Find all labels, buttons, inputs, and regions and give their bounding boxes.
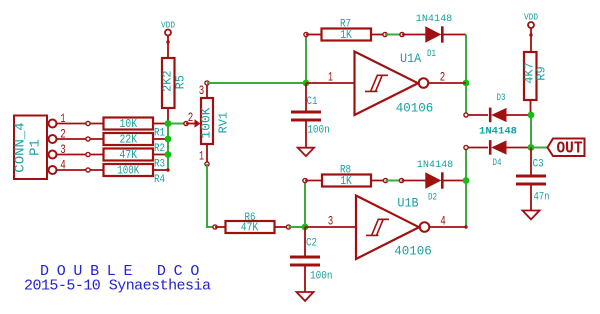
- connector P1 labels: [13, 122, 44, 172]
- svg-text:1: 1: [328, 69, 333, 84]
- svg-text:47K: 47K: [241, 222, 259, 235]
- resistor R1: [104, 118, 169, 140]
- svg-text:2: 2: [188, 110, 194, 125]
- svg-text:U1B: U1B: [397, 197, 419, 211]
- connector pin wires: [57, 124, 104, 171]
- hysteresis glyph U1A: [365, 75, 388, 91]
- U1A pin numbers: [328, 69, 445, 84]
- svg-text:OUT: OUT: [557, 138, 583, 157]
- potentiometer RV1: [184, 81, 231, 166]
- inverter U1A (schmitt): [306, 52, 466, 116]
- svg-text:D1: D1: [427, 49, 436, 60]
- pin-end dot at R4 bus corner: [166, 168, 169, 171]
- connector pin numbers: [60, 111, 66, 173]
- VDD symbol left: [161, 20, 175, 59]
- U1B pin numbers: [328, 214, 446, 229]
- junction D2 node: [463, 177, 470, 184]
- junction D3 node: [528, 112, 535, 119]
- svg-text:R9: R9: [535, 66, 549, 80]
- svg-text:RV1: RV1: [217, 112, 231, 134]
- capacitor C3: [516, 148, 550, 211]
- wire R8 to D2: [386, 180, 402, 182]
- global label OUT: [548, 138, 585, 157]
- svg-text:R3: R3: [154, 159, 165, 171]
- junction node U1A input: [303, 80, 310, 87]
- svg-text:D3: D3: [497, 93, 506, 104]
- svg-text:100K: 100K: [117, 165, 139, 178]
- wire RV1.1 down to R6: [207, 164, 215, 227]
- resistor R2: [104, 133, 169, 155]
- ground below C1: [298, 148, 314, 156]
- ground below C3: [523, 211, 540, 220]
- svg-text:D2: D2: [428, 193, 437, 204]
- RV1 pin numbers: [188, 83, 205, 164]
- wire R9 bottom vertical: [530, 115, 532, 148]
- svg-text:22K: 22K: [120, 134, 138, 147]
- svg-text:R4: R4: [154, 174, 165, 186]
- junction node U1B input: [302, 224, 309, 231]
- ground below C2: [297, 292, 314, 301]
- junction U1A output: [463, 80, 470, 87]
- svg-text:100n: 100n: [310, 271, 333, 283]
- svg-text:47K: 47K: [120, 149, 138, 162]
- svg-text:47n: 47n: [534, 191, 550, 203]
- capacitor C2: [290, 227, 333, 292]
- VDD symbol right: [524, 12, 538, 53]
- svg-text:U1A: U1A: [400, 52, 422, 66]
- wire R7 left vertical: [305, 35, 307, 84]
- svg-text:1K: 1K: [340, 29, 352, 42]
- svg-text:1N4148: 1N4148: [479, 125, 517, 137]
- diode D3: [464, 93, 531, 122]
- wire R6 to U1B node: [289, 226, 306, 228]
- svg-text:40106: 40106: [396, 100, 434, 115]
- svg-text:C2: C2: [306, 238, 317, 250]
- pin-end dots rows 1-4: [86, 121, 90, 172]
- svg-text:R2: R2: [154, 143, 165, 155]
- capacitor C1: [291, 83, 330, 148]
- svg-text:40106: 40106: [394, 244, 432, 259]
- svg-text:VDD: VDD: [524, 12, 538, 23]
- diode D2: [399, 160, 466, 204]
- svg-text:10K: 10K: [120, 118, 138, 131]
- inverter U1B (schmitt): [305, 196, 468, 260]
- svg-text:2K2: 2K2: [160, 70, 174, 92]
- svg-text:R1: R1: [154, 128, 165, 140]
- svg-text:P1: P1: [28, 139, 44, 156]
- svg-text:2015-5-10 Synaesthesia: 2015-5-10 Synaesthesia: [24, 278, 211, 295]
- svg-text:1K: 1K: [340, 175, 352, 188]
- svg-text:3: 3: [328, 214, 334, 229]
- resistor R8: [303, 165, 388, 189]
- resistor R7: [304, 19, 387, 43]
- wire U1B output vertical: [465, 148, 467, 228]
- svg-text:C1: C1: [307, 96, 318, 108]
- resistor R9: [522, 52, 548, 115]
- connector P1 body: [14, 116, 57, 180]
- junction dots left bus: [165, 120, 172, 158]
- svg-text:C3: C3: [533, 159, 544, 171]
- resistor R3: [104, 149, 169, 171]
- diode D4: [464, 140, 531, 169]
- junction D4/OUT node: [528, 144, 535, 151]
- svg-text:4: 4: [440, 214, 446, 229]
- svg-text:1N4148: 1N4148: [417, 160, 454, 171]
- wire node up to R8: [304, 181, 306, 228]
- svg-text:100K: 100K: [199, 107, 214, 138]
- diode D1: [400, 14, 466, 60]
- svg-text:2: 2: [440, 69, 446, 84]
- wire bus vertical R1-R4: [168, 124, 186, 171]
- wire U1A output vertical: [465, 35, 467, 116]
- wire RV1.3 to U1A input: [207, 82, 306, 84]
- svg-text:D4: D4: [493, 158, 502, 169]
- resistor R6: [213, 212, 291, 235]
- resistor R4: [104, 164, 169, 186]
- svg-text:100n: 100n: [307, 124, 330, 136]
- resistor R5: [160, 58, 187, 124]
- svg-text:1N4148: 1N4148: [416, 14, 453, 25]
- svg-text:CONN_4: CONN_4: [13, 122, 29, 172]
- svg-text:R5: R5: [174, 75, 188, 89]
- svg-text:1: 1: [199, 149, 204, 164]
- svg-text:3: 3: [199, 83, 205, 98]
- wire to OUT label: [531, 147, 548, 149]
- hysteresis glyph U1B: [366, 219, 389, 235]
- wire R7 to D1: [385, 34, 402, 36]
